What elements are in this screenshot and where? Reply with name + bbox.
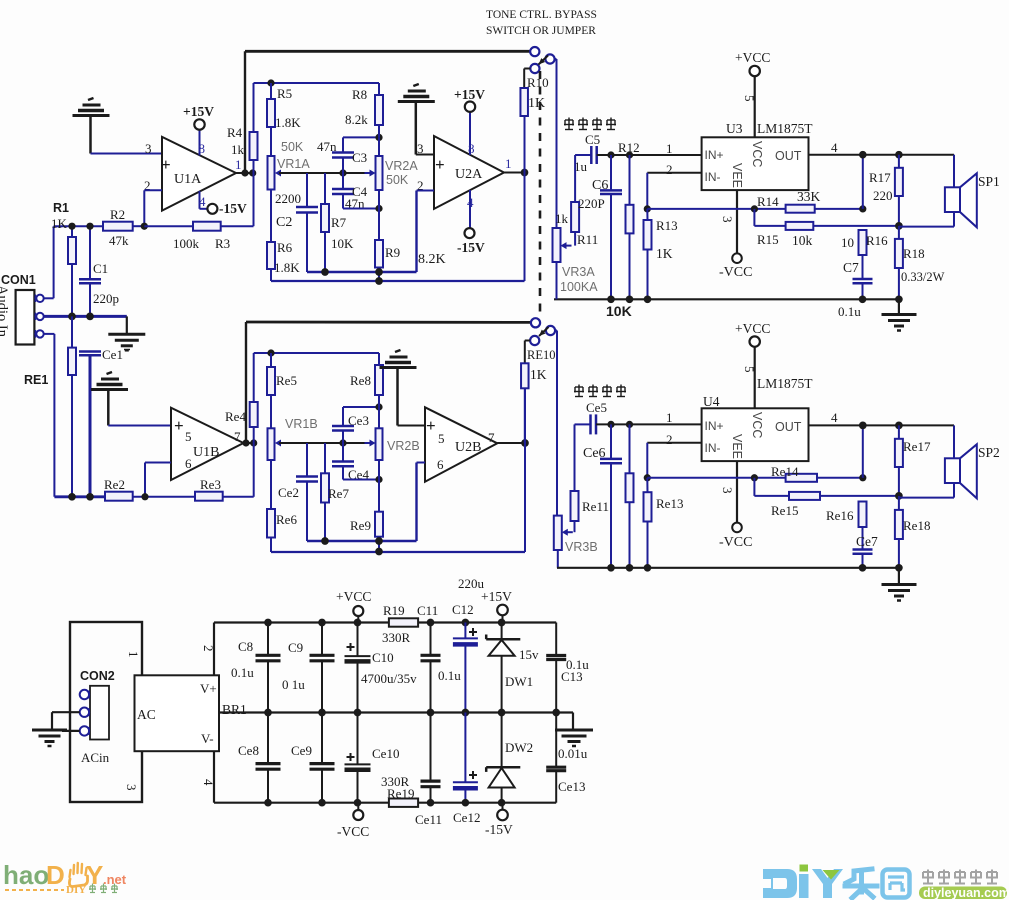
wire U1B pin5 <box>108 425 171 427</box>
svg-text:C5: C5 <box>585 132 600 147</box>
svg-text:+: + <box>426 416 436 435</box>
svg-text:-VCC: -VCC <box>337 824 369 839</box>
svg-text:3: 3 <box>417 141 424 156</box>
svg-text:8.2K: 8.2K <box>418 252 446 267</box>
op-amp U2B <box>425 407 497 481</box>
wire U2A output <box>504 156 525 173</box>
capacitor C10 electrolytic <box>345 623 418 713</box>
wire VR3A top feed <box>556 59 558 228</box>
wire CON1 pin2 bus <box>44 315 127 318</box>
label 10K bus A <box>606 303 632 319</box>
resistor R7 <box>321 173 354 272</box>
svg-text:3: 3 <box>124 784 139 791</box>
svg-text:1k: 1k <box>555 211 569 226</box>
label Audio In <box>0 285 10 338</box>
svg-text:VR2A: VR2A <box>385 159 418 173</box>
resistor R6 <box>267 190 300 282</box>
svg-text:hao: hao <box>3 860 49 890</box>
arrow into VR2A <box>365 170 376 177</box>
svg-text:BR1: BR1 <box>222 702 247 717</box>
wire U2B output <box>497 442 525 444</box>
U4 pin2 label <box>666 432 673 447</box>
svg-text:VCC: VCC <box>750 141 764 167</box>
svg-text:4700u/35v: 4700u/35v <box>361 671 417 686</box>
capacitor C1 <box>79 226 119 316</box>
wire OUT line A <box>809 140 955 155</box>
node U1B output Re4 <box>250 439 257 446</box>
resistor Re12 <box>626 424 634 567</box>
svg-text:DIY: DIY <box>66 884 86 896</box>
svg-text:LM1875T: LM1875T <box>757 121 813 136</box>
svg-text:Re8: Re8 <box>350 373 371 388</box>
svg-text:RE10: RE10 <box>527 348 555 362</box>
wire tone outer bottom line <box>271 280 525 282</box>
svg-text:U4: U4 <box>703 394 720 409</box>
arrow into VR2B <box>365 440 376 447</box>
svg-text:R10: R10 <box>527 75 549 90</box>
svg-text:VR3B: VR3B <box>565 540 598 554</box>
capacitor C9 <box>282 623 335 713</box>
bridge AC BR1 <box>135 645 247 786</box>
connector CON2 <box>70 622 142 802</box>
resistor Re2 <box>104 477 195 501</box>
U1A pin 4 -15V <box>199 191 247 216</box>
wire IN+ line A <box>597 154 702 156</box>
node Re12 top <box>626 421 633 428</box>
svg-text:+: + <box>161 155 171 174</box>
svg-text:-VCC: -VCC <box>719 535 752 550</box>
svg-text:R16: R16 <box>866 233 888 248</box>
svg-text:ACin: ACin <box>81 750 110 765</box>
svg-text:U1A: U1A <box>174 172 202 187</box>
svg-text:1: 1 <box>126 651 141 658</box>
svg-text:Ce9: Ce9 <box>291 743 312 758</box>
svg-text:C1: C1 <box>93 261 108 276</box>
U3 pin1 label <box>666 141 673 156</box>
resistor Re4 <box>225 402 258 443</box>
resistor R3 <box>173 222 254 251</box>
svg-text:Re18: Re18 <box>903 518 930 533</box>
resistor Re11 <box>571 424 609 521</box>
jumper pad J2b <box>546 326 557 335</box>
node C10 top <box>354 619 362 627</box>
potentiometer VR3B <box>554 516 598 568</box>
wire bypass riser A <box>524 116 526 281</box>
svg-text:R8: R8 <box>352 87 367 102</box>
node VR2A bottom <box>375 205 382 212</box>
node Re8 bottom <box>375 403 382 410</box>
resistor R4 <box>227 83 258 172</box>
node R5 top <box>267 79 274 86</box>
svg-text:VCC: VCC <box>750 412 764 438</box>
svg-text:7: 7 <box>488 430 495 445</box>
wire U2A pin3 <box>416 154 434 156</box>
wire CON2 pin2 to ground <box>52 712 80 729</box>
wire PSU mid rail <box>219 711 573 713</box>
svg-text:5: 5 <box>742 366 757 373</box>
svg-text:DW1: DW1 <box>505 674 533 689</box>
svg-text:R19: R19 <box>383 603 405 618</box>
resistor R19 <box>382 603 418 645</box>
jumper pad J1a <box>530 47 539 56</box>
wire R3 to output <box>253 160 255 226</box>
node DW1 mid <box>498 709 506 717</box>
svg-text:-15V: -15V <box>457 240 485 255</box>
node Re5 top <box>267 349 274 356</box>
potentiometer VR2B <box>376 407 420 480</box>
node R12 top <box>626 151 633 158</box>
capacitor Ce11 <box>415 713 442 828</box>
svg-text:OUT: OUT <box>775 149 802 163</box>
svg-text:1k: 1k <box>231 142 245 157</box>
svg-text:0.33/2W: 0.33/2W <box>901 270 945 284</box>
svg-text:VEE: VEE <box>730 434 744 459</box>
U1A pin 8 +15V <box>183 104 214 156</box>
wire CON2 pin3 to ground <box>62 730 80 732</box>
resistor Re5 <box>267 353 297 428</box>
node U2B output <box>521 439 529 447</box>
svg-text:1K: 1K <box>51 216 68 231</box>
node Ce9 bottom <box>318 799 326 807</box>
ground G2 (CON1 pin2) <box>108 316 145 350</box>
resistor R5 <box>267 83 301 156</box>
ground G8 (CON2) <box>32 730 67 746</box>
node Ce10 bottom <box>354 799 362 807</box>
wire CON1 pin1 to node A <box>44 297 54 299</box>
node Re9 inner <box>375 537 383 545</box>
ground G6 (above U2B) <box>380 350 417 426</box>
svg-text:8: 8 <box>468 141 475 156</box>
svg-text:100KA: 100KA <box>560 280 598 294</box>
speaker SP2 <box>899 425 1000 498</box>
resistor R15 <box>754 209 899 248</box>
svg-text:C10: C10 <box>372 650 394 665</box>
capacitor Ce4 <box>332 443 369 482</box>
node rail C6 <box>607 295 615 303</box>
node rail Re13 <box>644 564 652 572</box>
resistor Re19 <box>381 774 418 807</box>
svg-text:C13: C13 <box>561 669 583 684</box>
svg-text:47k: 47k <box>109 233 129 248</box>
wire IN- line B <box>647 443 701 478</box>
svg-text:1K: 1K <box>656 246 673 261</box>
node rail Ce7 <box>859 564 867 572</box>
potentiometer VR3A <box>553 228 599 299</box>
capacitor Ce13 <box>546 713 588 803</box>
svg-text:R2: R2 <box>110 207 125 222</box>
svg-text:IN+: IN+ <box>705 148 724 162</box>
resistor Re16 <box>826 502 867 550</box>
speaker SP1 <box>899 155 1000 228</box>
svg-text:1: 1 <box>505 156 512 171</box>
svg-text:+15V: +15V <box>481 589 512 604</box>
logo haoDIY <box>3 860 127 896</box>
capacitor Ce10 electrolytic <box>345 713 400 803</box>
svg-text:SWITCH OR JUMPER: SWITCH OR JUMPER <box>486 25 596 37</box>
U2A pin 4 -15V <box>457 190 485 255</box>
node R14 left <box>751 205 758 212</box>
resistor Re13 <box>644 478 684 568</box>
svg-text:Audio In: Audio In <box>0 285 10 338</box>
node C8 top <box>264 619 272 627</box>
wire top bypass line B <box>246 322 531 443</box>
wire Ce4 to VR2B bottom node <box>343 479 379 481</box>
node C9 mid <box>318 709 326 717</box>
logo DIY leyuan <box>763 865 1009 901</box>
-VCC tap <box>337 803 369 839</box>
wire bypass riser B <box>524 388 526 552</box>
label metal film B <box>574 385 626 397</box>
svg-text:Ce1: Ce1 <box>102 347 123 362</box>
ground G7 (amp B) <box>882 568 917 601</box>
ground G4 (amp A) <box>882 299 917 330</box>
node Ce1 bottom <box>86 493 94 501</box>
wire Ce3 top link <box>343 407 379 426</box>
svg-text:Ce11: Ce11 <box>415 812 442 827</box>
svg-text:3: 3 <box>145 141 152 156</box>
resistor RE10 <box>521 341 555 389</box>
wire PSU bottom rail <box>214 802 556 804</box>
svg-text:VR2B: VR2B <box>387 439 420 453</box>
wire PSU top rail <box>214 621 556 623</box>
svg-text:+VCC: +VCC <box>735 321 770 336</box>
+VCC tap <box>336 589 371 623</box>
svg-text:Ce7: Ce7 <box>856 534 878 549</box>
wire RE10 to output <box>524 388 526 443</box>
svg-text:50K: 50K <box>281 140 304 154</box>
resistor R10 <box>520 69 548 117</box>
svg-text:Re5: Re5 <box>276 373 297 388</box>
svg-text:R18: R18 <box>903 246 925 261</box>
node DW2 bottom <box>498 799 506 807</box>
svg-text:Re9: Re9 <box>350 518 371 533</box>
svg-text:3: 3 <box>720 487 735 494</box>
svg-text:Ce6: Ce6 <box>583 446 606 461</box>
svg-text:Ce13: Ce13 <box>558 779 585 794</box>
svg-text:Re7: Re7 <box>328 486 349 501</box>
svg-text:Ce3: Ce3 <box>348 413 369 428</box>
svg-text:0.1u: 0.1u <box>838 304 861 319</box>
svg-text:+15V: +15V <box>183 104 214 119</box>
potentiometer VR1B <box>268 417 318 460</box>
wire Re3 to output <box>253 443 255 497</box>
svg-text:6: 6 <box>437 457 444 472</box>
svg-text:Re4: Re4 <box>225 409 246 424</box>
jumper pad J1c <box>524 64 539 73</box>
wire tone B top line <box>254 353 379 402</box>
label metal film A <box>564 118 616 130</box>
svg-text:R17: R17 <box>869 170 891 185</box>
svg-text:R9: R9 <box>385 245 400 260</box>
node R9 outer <box>375 277 383 285</box>
node R14 right <box>859 205 866 212</box>
svg-text:DW2: DW2 <box>505 740 533 755</box>
svg-text:2200: 2200 <box>275 191 301 206</box>
capacitor C11 <box>417 603 461 713</box>
resistor Re9 <box>350 480 383 553</box>
svg-text:-15V: -15V <box>485 822 513 837</box>
node C1 mid <box>86 313 94 321</box>
svg-text:R1: R1 <box>53 201 69 215</box>
node C1 top <box>86 223 93 230</box>
U3 pin5 +VCC <box>735 50 770 137</box>
svg-text:VEE: VEE <box>730 163 744 188</box>
dashed bypass divider <box>539 71 542 316</box>
svg-text:R15: R15 <box>757 232 779 247</box>
svg-text:Re19: Re19 <box>387 786 414 801</box>
node rail Re18 <box>895 564 903 572</box>
svg-text:CON2: CON2 <box>80 669 115 683</box>
node Re17/Re15/speaker <box>895 492 903 500</box>
node rail C7 <box>859 295 867 303</box>
svg-text:Ce12: Ce12 <box>453 810 480 825</box>
capacitor C2 <box>275 173 318 272</box>
op-amp U1B <box>171 408 244 480</box>
jumper pad J2c <box>525 336 540 345</box>
wire CON1 pin3 down <box>44 334 55 497</box>
node C11 mid <box>427 709 435 717</box>
svg-text:Re11: Re11 <box>582 499 609 514</box>
wire tone B inner bottom line <box>307 463 417 542</box>
svg-text:R11: R11 <box>577 232 598 247</box>
wire VR1B wiper bus <box>279 442 369 444</box>
svg-text:D: D <box>46 860 65 890</box>
resistor Re6 <box>267 460 297 552</box>
svg-text:C8: C8 <box>238 639 253 654</box>
svg-text:R3: R3 <box>215 236 230 251</box>
op-amp U1A <box>144 137 236 211</box>
resistor R17 <box>869 155 903 226</box>
svg-text:IN+: IN+ <box>705 419 724 433</box>
svg-text:3: 3 <box>720 216 735 223</box>
resistor R9 <box>375 209 446 282</box>
svg-text:C11: C11 <box>417 603 438 618</box>
wire OUT line B <box>809 410 955 425</box>
svg-text:C9: C9 <box>288 640 303 655</box>
node feedback A <box>644 205 651 212</box>
jumper pad J1b <box>545 54 556 63</box>
wire bottom rail A <box>554 262 899 299</box>
svg-text:R14: R14 <box>757 194 779 209</box>
node U2A output <box>521 169 529 177</box>
wire U1B pin6 <box>145 463 171 497</box>
resistor Re7 <box>321 443 349 541</box>
node RE1 bottom <box>68 493 76 501</box>
wire tone inner bottom line <box>307 191 417 273</box>
zener diode DW2 <box>486 713 533 803</box>
capacitor C5 <box>574 132 600 174</box>
svg-text:SP2: SP2 <box>978 445 1000 460</box>
node rail R18 <box>895 295 903 303</box>
svg-text:10: 10 <box>841 235 854 250</box>
svg-text:U2A: U2A <box>455 167 483 182</box>
svg-text:4: 4 <box>199 194 206 209</box>
node Ce12 bottom <box>462 799 470 807</box>
resistor Re8 <box>350 353 383 407</box>
capacitor Ce3 <box>332 413 369 443</box>
node Ce3/Ce4 junction <box>339 439 346 446</box>
resistor R12 <box>618 140 640 299</box>
wire bottom rail B <box>557 567 899 569</box>
node Re2/Re3/pin6 <box>141 493 148 500</box>
svg-text:C6: C6 <box>592 178 608 193</box>
svg-text:5: 5 <box>185 429 192 444</box>
wire VR3B top feed <box>556 331 558 516</box>
wire feedback line A <box>647 208 785 210</box>
node feedback B <box>644 474 651 481</box>
svg-text:Re2: Re2 <box>104 477 125 492</box>
wire IN+ line B <box>596 423 702 425</box>
capacitor C4 <box>332 173 368 211</box>
svg-text:IN-: IN- <box>705 441 721 455</box>
svg-text:2: 2 <box>666 162 673 177</box>
svg-text:1.8K: 1.8K <box>275 115 301 130</box>
node R9 inner <box>375 268 383 276</box>
-15V tap <box>485 803 513 837</box>
svg-text:4: 4 <box>467 195 474 210</box>
svg-text:RE1: RE1 <box>24 373 48 387</box>
svg-text:R6: R6 <box>277 240 293 255</box>
resistor Re18 <box>895 496 931 568</box>
svg-text:1K: 1K <box>530 367 547 382</box>
capacitor C3 <box>317 139 367 173</box>
ground G1 (input stage top-left) <box>73 98 110 154</box>
wire IN- line A <box>647 173 701 209</box>
svg-text:R13: R13 <box>656 218 678 233</box>
resistor R16 <box>841 230 888 279</box>
wire U1A pin3 input <box>91 153 163 155</box>
resistor RE1 <box>24 316 76 496</box>
svg-text:8.2k: 8.2k <box>345 112 368 127</box>
svg-text:0.01u: 0.01u <box>558 746 588 761</box>
svg-text:15v: 15v <box>519 647 539 662</box>
svg-text:50K: 50K <box>386 173 409 187</box>
svg-text:U3: U3 <box>726 121 743 136</box>
resistor R2 <box>103 207 144 248</box>
svg-text:220p: 220p <box>93 291 119 306</box>
wire tone B outer bottom line <box>271 551 525 553</box>
svg-text:Ce10: Ce10 <box>372 746 399 761</box>
svg-text:220P: 220P <box>578 196 605 211</box>
svg-text:330R: 330R <box>382 630 411 645</box>
capacitor Ce7 <box>853 534 878 568</box>
node Ce6 top <box>607 421 614 428</box>
svg-text:-VCC: -VCC <box>719 265 752 280</box>
node U1B output bypass <box>242 439 249 446</box>
svg-text:Re15: Re15 <box>771 503 798 518</box>
wire U2A pin2 <box>417 190 435 192</box>
node U1A output to bypass <box>241 169 248 176</box>
jumper arrow A <box>539 56 549 65</box>
label 0.1u C7 <box>838 304 861 319</box>
wire U2B pin5 <box>398 425 426 427</box>
wire U1B output <box>244 442 254 444</box>
svg-text:R5: R5 <box>277 86 292 101</box>
wire U1A output <box>236 172 254 174</box>
node R17/R15/speaker <box>895 222 903 230</box>
label R1 <box>51 201 69 231</box>
svg-text:Re13: Re13 <box>656 496 683 511</box>
svg-text:-15V: -15V <box>219 201 247 216</box>
node OUT/Re17 <box>895 422 903 430</box>
node R8 bottom <box>375 134 382 141</box>
svg-text:1: 1 <box>666 141 673 156</box>
svg-text:R12: R12 <box>618 140 640 155</box>
svg-text:V-: V- <box>201 731 214 746</box>
svg-text:SP1: SP1 <box>978 174 1000 189</box>
wire R14 to OUT <box>862 155 864 209</box>
svg-text:5: 5 <box>438 431 445 446</box>
